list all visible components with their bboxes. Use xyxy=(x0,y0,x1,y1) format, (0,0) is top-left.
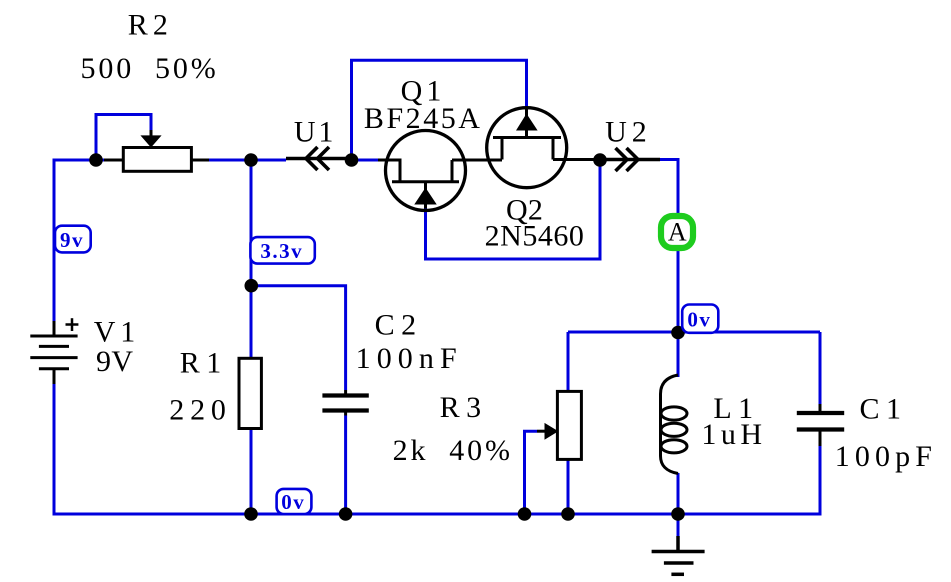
svg-text:C1: C1 xyxy=(859,393,907,426)
wire battery bottom xyxy=(53,384,56,516)
svg-text:500 50%: 500 50% xyxy=(81,52,219,85)
junction node (351.5,160) xyxy=(345,153,359,167)
wire U2 to node A vertical xyxy=(660,160,678,333)
wire L1 bottom xyxy=(677,473,680,514)
junction node rail C2 xyxy=(339,507,353,521)
wire U1 to Q1 xyxy=(352,159,379,162)
wire R3 wiper xyxy=(525,431,538,514)
wire C2 branch xyxy=(251,286,345,390)
wire L1 top xyxy=(677,332,680,377)
junction node rail R3 wiper xyxy=(518,507,532,521)
junction node (96,160) xyxy=(89,153,103,167)
svg-text:R1: R1 xyxy=(180,347,228,380)
wire R3 vertical xyxy=(567,332,570,514)
junction node rail ground xyxy=(671,507,685,521)
svg-text:220: 220 xyxy=(169,394,232,427)
transistor Q1 (BF245A JFET) xyxy=(378,131,502,211)
capacitor C2 xyxy=(322,390,368,416)
svg-text:2k 40%: 2k 40% xyxy=(393,434,513,467)
transistor Q2 (2N5460 JFET) xyxy=(487,108,600,188)
junction node (251,160) xyxy=(244,153,258,167)
inductor L1 xyxy=(661,375,688,474)
resistor R1 xyxy=(239,358,261,428)
wire mid horizontal y=332 xyxy=(568,331,820,334)
wire main horizontal y=160 xyxy=(53,159,287,162)
Q2 gate arrow xyxy=(517,115,537,131)
battery plus sign xyxy=(66,318,79,331)
wire ground stem blue xyxy=(677,514,680,536)
svg-text:R2: R2 xyxy=(128,9,173,42)
label 9v xyxy=(55,226,91,253)
port U2 xyxy=(600,148,660,171)
ground xyxy=(652,536,705,574)
svg-text:0v: 0v xyxy=(687,308,711,332)
R2 wiper arrow xyxy=(142,136,161,147)
wire top bypass (junction to Q2 gate) xyxy=(352,60,527,160)
svg-text:U1: U1 xyxy=(294,116,336,149)
node A xyxy=(661,216,693,248)
capacitor C1 xyxy=(797,404,844,446)
svg-text:100nF: 100nF xyxy=(356,342,463,375)
svg-text:100pF: 100pF xyxy=(835,440,937,473)
resistor R3 (potentiometer) xyxy=(557,391,581,459)
label 0v bottom xyxy=(277,489,312,514)
junction node rail R1 xyxy=(244,507,258,521)
junction node (600,160) xyxy=(593,153,607,167)
Q1 gate arrow xyxy=(415,189,436,205)
wire Q1 gate loop xyxy=(426,161,601,259)
battery V1 xyxy=(30,321,77,384)
label 0v right xyxy=(682,305,718,333)
svg-text:R3: R3 xyxy=(440,391,488,424)
svg-text:U2: U2 xyxy=(605,116,652,149)
junction node (678,332.5) xyxy=(671,326,685,340)
wire R2 wiper xyxy=(96,115,151,161)
wire R1 vertical xyxy=(250,160,253,514)
svg-text:A: A xyxy=(668,218,687,247)
svg-text:9V: 9V xyxy=(96,345,133,378)
svg-text:1uH: 1uH xyxy=(701,418,766,451)
port U1 xyxy=(286,147,352,170)
svg-text:3.3v: 3.3v xyxy=(260,239,303,263)
svg-text:2N5460: 2N5460 xyxy=(485,219,585,252)
wire left vertical top (battery top to main line) xyxy=(53,160,56,321)
label 3.3v xyxy=(250,237,314,264)
svg-text:BF245A: BF245A xyxy=(364,102,483,135)
wire C1 vertical top xyxy=(819,332,822,404)
wire C1 vertical bottom xyxy=(819,446,822,514)
R3 wiper arrow xyxy=(537,430,545,433)
junction node rail R3 xyxy=(561,507,575,521)
junction node (251.3,285.7) xyxy=(245,279,259,293)
wire C2 bottom xyxy=(344,416,347,515)
wire bottom rail xyxy=(53,513,822,516)
svg-text:V1: V1 xyxy=(94,316,140,349)
svg-text:9v: 9v xyxy=(60,228,84,252)
svg-text:C2: C2 xyxy=(375,309,423,342)
svg-text:0v: 0v xyxy=(281,490,305,514)
resistor R2 (potentiometer) xyxy=(104,130,209,171)
